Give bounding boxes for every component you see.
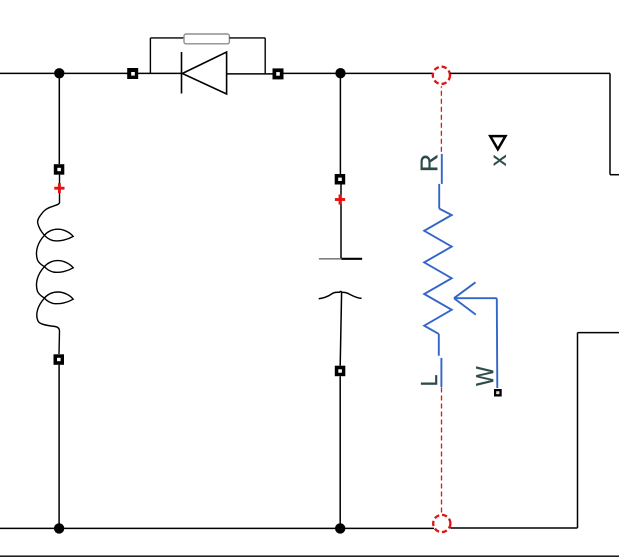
wire bottom right vertical — [577, 333, 579, 528]
wire capacitor bottom lead — [340, 292, 341, 366]
wire inductor top lead — [59, 175, 61, 202]
capacitor C1 top plate gray half — [319, 258, 342, 260]
wire left branch lower — [58, 365, 60, 529]
wire middle branch upper — [339, 73, 341, 174]
wire capacitor top lead — [340, 185, 342, 259]
label input x — [494, 155, 506, 166]
terminal potentiometer W — [494, 389, 502, 397]
wire left branch upper — [58, 73, 60, 164]
red dashed link top port to potentiometer R — [440, 86, 442, 153]
wire bottom bus right segment — [451, 527, 578, 529]
label pin L — [421, 375, 437, 384]
node junction dot C (bottom left) — [54, 523, 64, 533]
polarity plus inductor (red) — [54, 183, 64, 193]
terminal capacitor bottom — [335, 366, 346, 377]
wire top bus terminal to port — [284, 72, 433, 74]
polarity plus capacitor (red) — [335, 195, 345, 205]
wire snubber loop right vertical — [264, 38, 266, 74]
potentiometer P1 bottom stub — [440, 358, 442, 387]
diode D1 cathode bar — [181, 52, 183, 94]
wire snubber loop top left — [150, 37, 184, 39]
wire top right exit — [610, 174, 619, 176]
wire top bus left segment — [0, 72, 128, 74]
node junction dot D (bottom middle) — [335, 523, 345, 533]
potentiometer P1 top stub (blue) — [441, 154, 443, 184]
input marker triangle (nabla) — [490, 136, 505, 149]
potentiometer P1 resistor zigzag — [424, 209, 452, 334]
node junction dot A (top left) — [54, 68, 64, 78]
wire middle branch lower — [339, 376, 341, 528]
potentiometer P1 wiper arrow — [454, 282, 497, 388]
diode D1 triangle — [182, 52, 226, 94]
port marker top (red dashed circle) — [433, 67, 450, 84]
capacitor C1 bottom plate (curved) — [319, 291, 362, 298]
potentiometer P1 top lead — [438, 184, 440, 209]
potentiometer P1 bottom lead — [438, 334, 440, 356]
wire snubber loop top right — [229, 37, 265, 39]
wire snubber loop left vertical — [149, 38, 151, 74]
canvas boundary line bottom — [0, 555, 619, 557]
wire diode terminal to cathode — [138, 72, 182, 74]
inductor L1 coil — [36, 202, 73, 331]
wire top right vertical — [609, 73, 611, 174]
red dashed link potentiometer L to bottom port — [441, 388, 443, 515]
resistor R snubber (gray box) — [184, 34, 229, 44]
terminal diode pin 2 — [273, 68, 284, 79]
wire inductor bottom lead — [58, 331, 61, 354]
capacitor C1 top plate black half — [342, 258, 363, 260]
terminal inductor bottom — [54, 354, 65, 365]
terminal inductor top — [54, 164, 65, 175]
wire diode anode to right terminal — [227, 73, 273, 75]
label pin R — [421, 155, 438, 170]
node junction dot B (top middle) — [335, 68, 345, 78]
wire bottom right exit — [578, 332, 619, 334]
terminal capacitor top — [335, 174, 346, 185]
terminal diode pin 1 (anode-side square) — [127, 68, 138, 79]
wire top bus right segment — [450, 72, 610, 74]
wire bottom bus left segment — [0, 527, 434, 529]
label pin W — [476, 366, 493, 385]
port marker bottom (red dashed circle) — [433, 515, 450, 532]
